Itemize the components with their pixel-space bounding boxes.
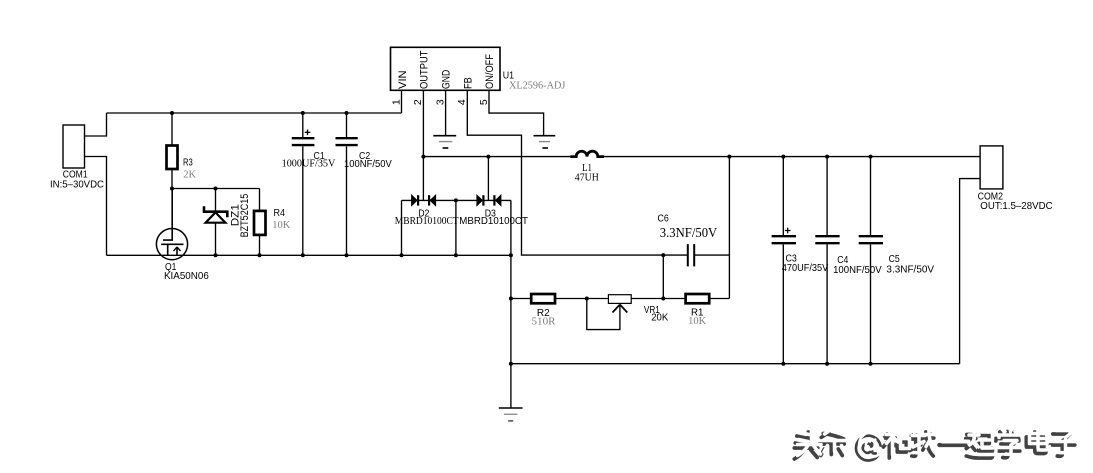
inductor L1 (570, 151, 604, 156)
resistor R2 (531, 294, 555, 303)
node FB wire / divider drop (661, 253, 665, 257)
node C3 bottom / bottom rail (781, 362, 785, 366)
watermark glyph 条 white (823, 429, 848, 453)
svg-text:3: 3 (434, 99, 446, 105)
wire pin4 FB path (467, 90, 688, 255)
watermark glyph 一 white (943, 440, 969, 444)
diode D3 (477, 195, 482, 205)
node DZ1 top / gate wire (214, 187, 218, 191)
node ground vertical / bottom rail (509, 362, 513, 366)
zener diode DZ1 (215, 189, 217, 212)
node DZ1 anode / ground rail (214, 253, 218, 257)
node divider drop / row (661, 297, 665, 301)
svg-text:U1: U1 (503, 69, 514, 81)
watermark glyph @ shadow (856, 436, 881, 461)
watermark glyph 学 white (998, 428, 1023, 454)
capacitor C1 (302, 113, 304, 137)
watermark glyph 子 shadow (1050, 434, 1075, 456)
node R4 bottom / ground rail (258, 253, 262, 257)
node C1 bottom / ground rail (301, 253, 305, 257)
wire divider row (511, 298, 730, 300)
svg-text:ON/OFF: ON/OFF (484, 54, 496, 89)
potentiometer VR1 (608, 295, 631, 304)
svg-text:BZT52C15: BZT52C15 (239, 194, 251, 238)
node C2 top / input rail (345, 111, 349, 115)
svg-text:2: 2 (412, 99, 424, 105)
svg-text:MBRD10100CT: MBRD10100CT (395, 216, 459, 227)
svg-text:OUTPUT: OUTPUT (418, 50, 430, 89)
node R3 bottom / Q1 gate (170, 187, 174, 191)
svg-text:FB: FB (462, 77, 474, 89)
watermark glyph 起 shadow (966, 432, 993, 458)
node C1 top / input rail (301, 111, 305, 115)
ground bottom center (499, 407, 523, 409)
watermark glyph 和 white (886, 429, 910, 455)
wire output rail (604, 156, 980, 158)
wire diode row left drop (401, 200, 403, 255)
wire diode row (402, 199, 511, 201)
svg-text:3.3NF/50V: 3.3NF/50V (660, 226, 717, 241)
connector COM1 (63, 125, 85, 168)
watermark glyph 条 shadow (819, 432, 844, 456)
watermark glyph 头 white (798, 429, 822, 456)
watermark glyph 子 white (1053, 431, 1078, 453)
svg-text:10K: 10K (272, 220, 291, 231)
wire bottom-left ground rail (107, 254, 512, 256)
op-amp U1 box (391, 47, 501, 90)
wire output right vertical (728, 157, 730, 299)
svg-text:OUT:1.5–28VDC: OUT:1.5–28VDC (980, 200, 1053, 212)
svg-text:GND: GND (441, 70, 453, 89)
capacitor C2 (346, 113, 348, 137)
wire bottom output rail (511, 363, 960, 365)
node diode row mid (454, 198, 458, 202)
resistor R3 (171, 113, 173, 146)
watermark glyph 头 shadow (794, 432, 818, 459)
svg-text:100NF/50V: 100NF/50V (344, 158, 392, 170)
svg-text:R4: R4 (274, 207, 286, 219)
svg-text:KIA50N06: KIA50N06 (164, 270, 209, 282)
wire pin3 (445, 90, 447, 135)
node C4 top / output rail (825, 155, 829, 159)
wire D3 top drop (487, 157, 489, 201)
ground under pin3 (433, 135, 456, 137)
svg-text:510R: 510R (532, 317, 556, 328)
node C5 top / output rail (869, 155, 873, 159)
svg-text:VIN: VIN (397, 70, 409, 89)
wire gate row (172, 188, 260, 190)
watermark 头条 @和我一起学电子 (794, 428, 1078, 460)
node D3 drop / switch rail (486, 155, 490, 159)
node VR1 wiper return / divider row (585, 297, 589, 301)
svg-text:1: 1 (390, 99, 402, 105)
svg-text:MBRD10100CT: MBRD10100CT (459, 215, 528, 227)
node C2 bottom / ground rail (345, 253, 349, 257)
connector COM2 (980, 146, 1003, 189)
svg-text:R3: R3 (183, 156, 193, 168)
diode D2 (412, 195, 417, 205)
capacitor C6 (687, 244, 689, 266)
wire FB drop to divider (662, 255, 664, 298)
svg-text:2K: 2K (183, 170, 196, 181)
wire pin1 (401, 90, 403, 113)
ground under pin5 (534, 135, 556, 137)
transistor Q1 (156, 229, 187, 260)
capacitor C5 (870, 157, 872, 236)
svg-text:5: 5 (478, 99, 490, 105)
wire COM1 top stub (85, 113, 107, 136)
capacitor C3 (782, 157, 784, 236)
wire pin2 (422, 90, 424, 200)
wire main ground vertical (510, 200, 512, 408)
node R1-C6 vertical / output rail (727, 155, 731, 159)
wire top rail (107, 112, 402, 114)
node C4 bottom / bottom rail (825, 362, 829, 366)
watermark glyph @ white (859, 432, 884, 457)
watermark glyph 电 shadow (1026, 432, 1046, 454)
svg-text:47UH: 47UH (575, 173, 599, 184)
svg-text:10K: 10K (688, 316, 707, 327)
node ground rail / main ground vertical (509, 253, 513, 257)
watermark glyph 起 white (969, 429, 996, 455)
watermark glyph 学 shadow (995, 432, 1020, 458)
node D2 anode drop / ground rail (400, 253, 404, 257)
svg-text:100NF/50V: 100NF/50V (833, 264, 882, 276)
resistor R4 (259, 189, 261, 211)
node C3 top / output rail (781, 155, 785, 159)
wire switch rail left (423, 156, 570, 158)
svg-text:IN:5–30VDC: IN:5–30VDC (50, 178, 104, 190)
wire pin5 path (489, 90, 544, 135)
node C5 bottom / bottom rail (869, 362, 873, 366)
node R3 top / input rail (170, 111, 174, 115)
wire diode row mid drop (455, 200, 457, 255)
svg-text:20K: 20K (651, 312, 668, 324)
svg-text:3.3NF/50V: 3.3NF/50V (886, 263, 934, 275)
svg-text:470UF/35V: 470UF/35V (782, 262, 829, 274)
svg-text:4: 4 (456, 99, 468, 105)
svg-text:C6: C6 (658, 213, 669, 225)
watermark glyph 我 white (912, 429, 937, 453)
resistor R1 (686, 294, 710, 303)
node diode mid drop / ground rail (454, 253, 458, 257)
watermark glyph 我 shadow (909, 432, 934, 456)
node divider row left / ground vertical (509, 297, 513, 301)
watermark glyph 和 shadow (883, 432, 907, 458)
watermark glyph 一 shadow (939, 443, 965, 447)
wire COM2 return (960, 179, 981, 364)
svg-text:1000UF/35V: 1000UF/35V (282, 159, 336, 170)
watermark glyph 电 white (1030, 429, 1050, 451)
svg-text:XL2596-ADJ: XL2596-ADJ (509, 81, 565, 92)
node pin2 / switch rail (421, 155, 425, 159)
capacitor C4 (826, 157, 828, 236)
wire COM1 bottom stub (85, 157, 107, 256)
